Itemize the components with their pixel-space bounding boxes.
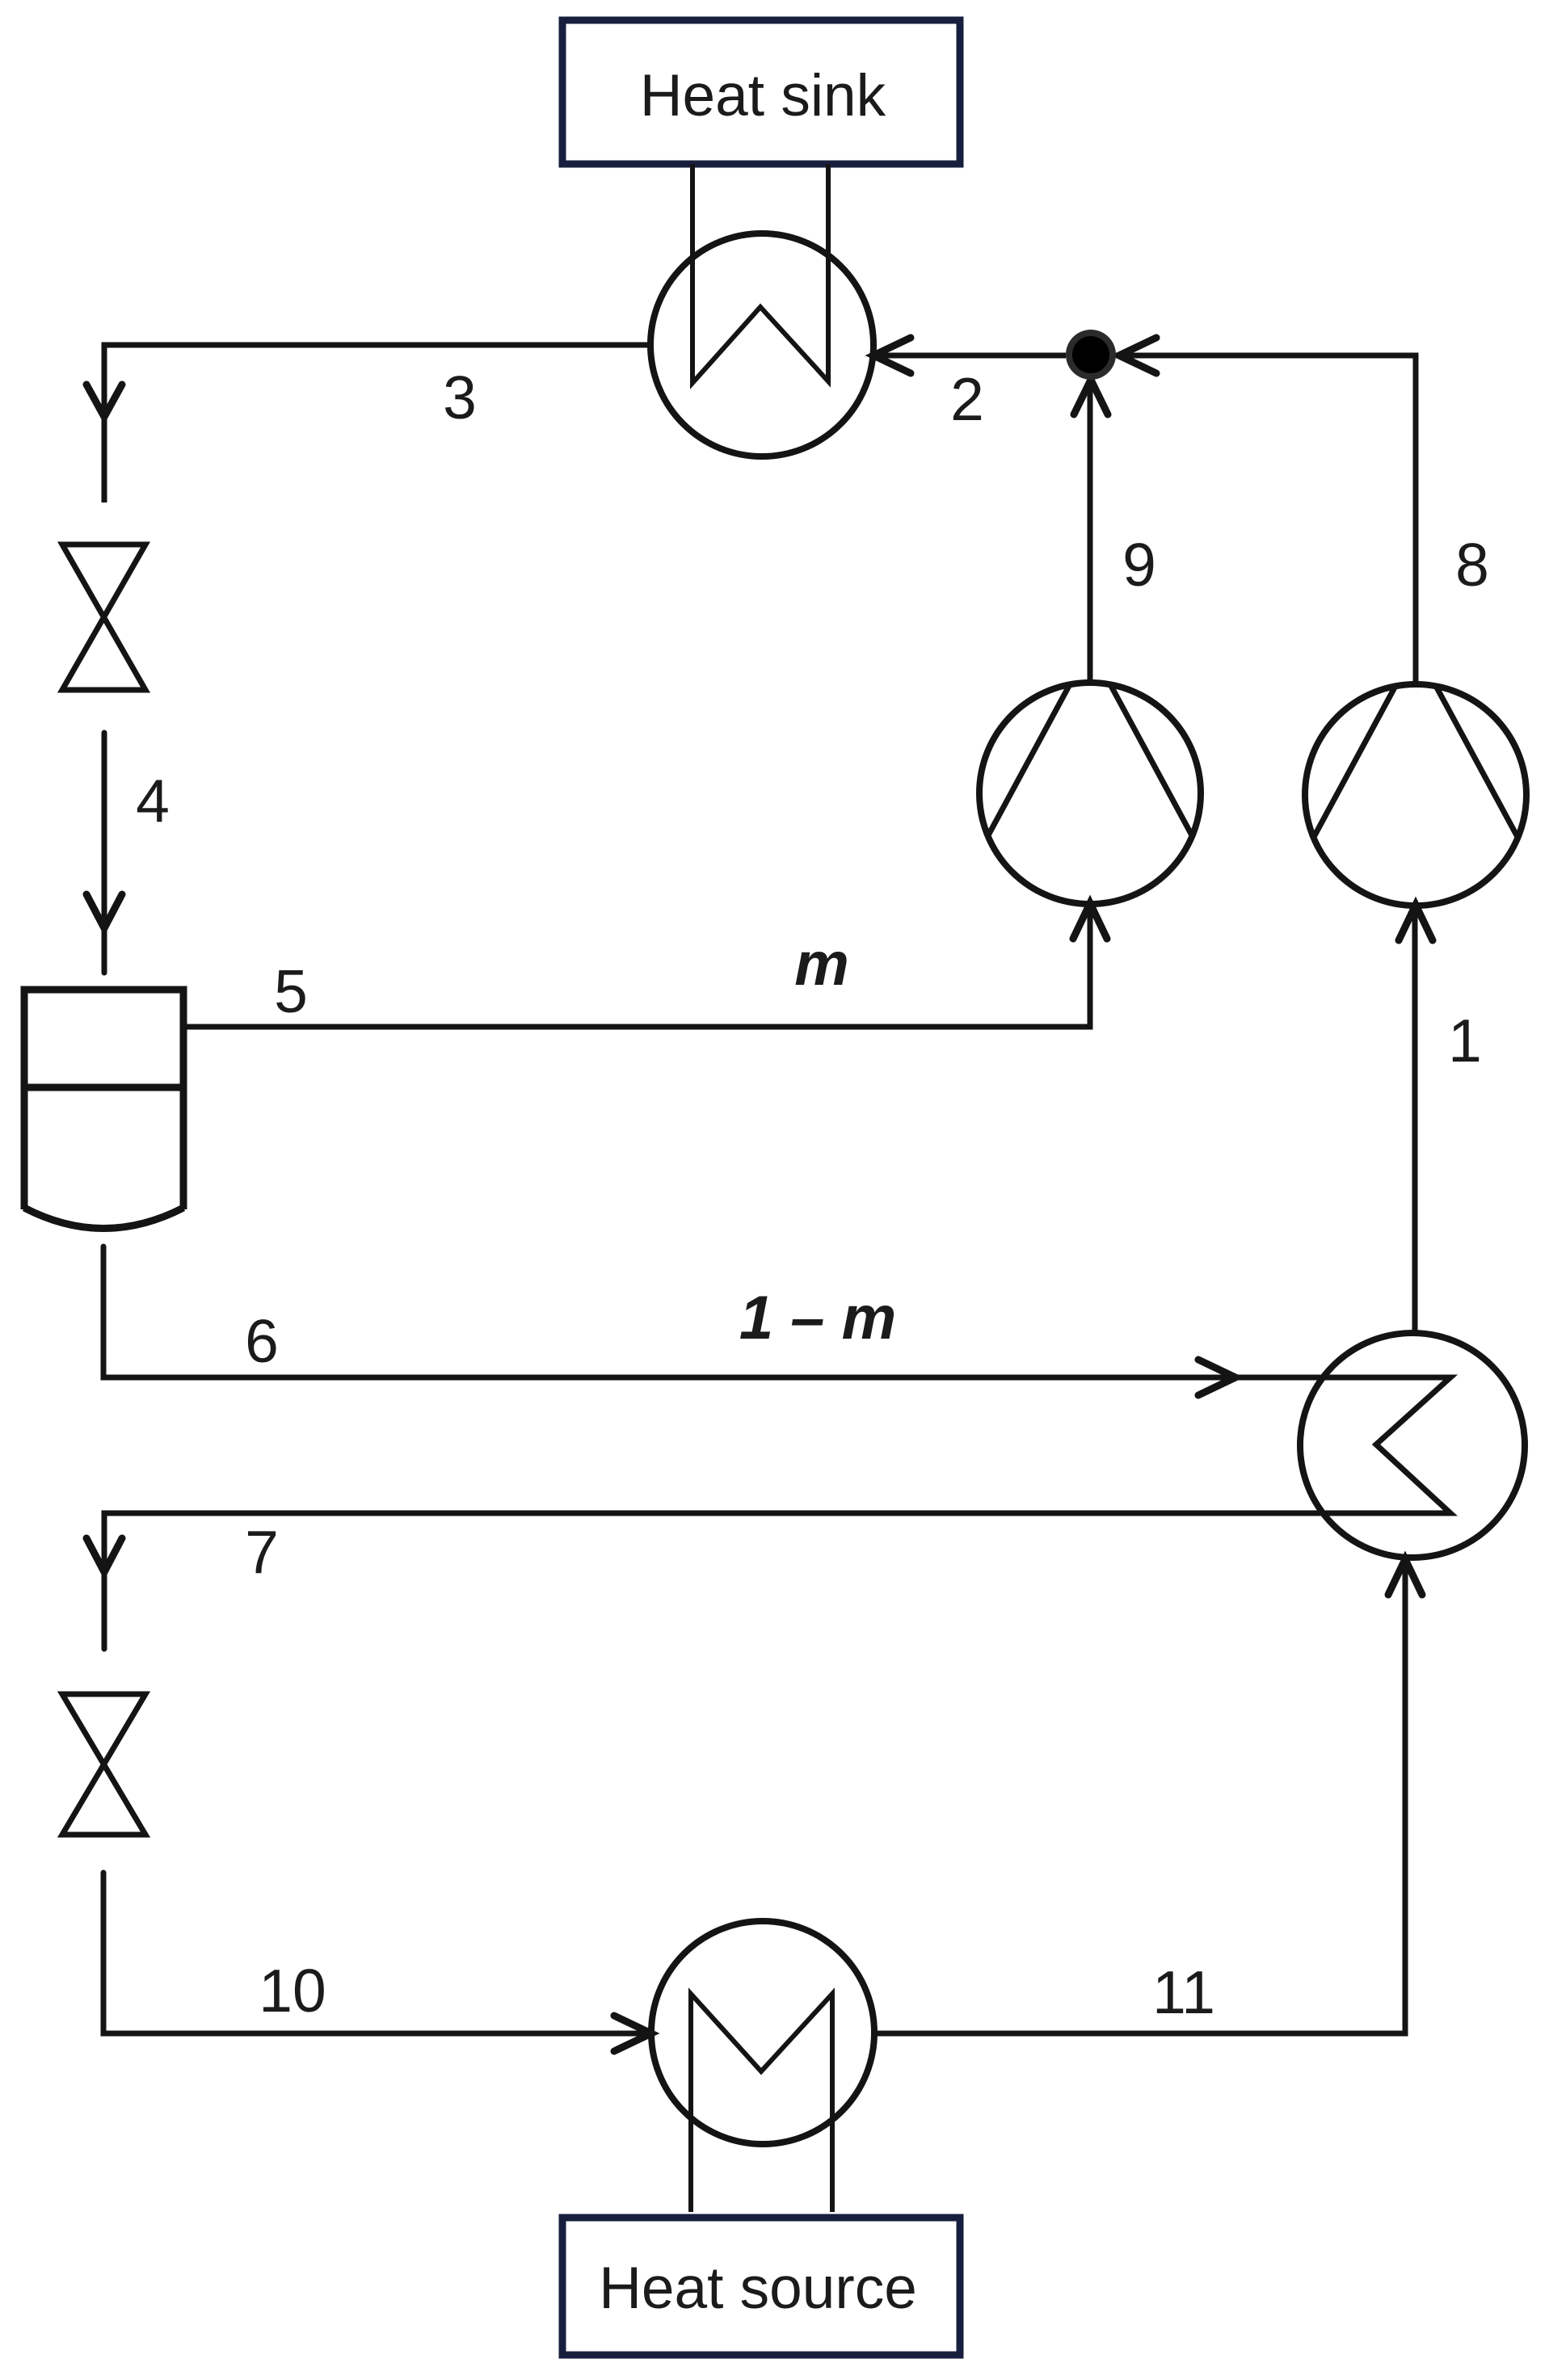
arrow right on wire 6 (1198, 1360, 1235, 1395)
wire 1: economizer to compressor 2 inlet (1412, 906, 1418, 1331)
wire 9: compressor 1 discharge to junction (1088, 380, 1093, 683)
svg-text:3: 3 (443, 364, 477, 431)
wire 6: tank liquid to economizer, continues as chevron and wire 7 (103, 1247, 1450, 1649)
arrow up into economizer (1388, 1559, 1422, 1595)
arrow up into compressor 2 (1399, 905, 1433, 940)
svg-text:10: 10 (259, 1957, 326, 2025)
wire 8: compressor 2 discharge to junction (1116, 355, 1416, 684)
condenser channel lines to heat sink (692, 164, 828, 383)
economizer heat exchanger (1300, 1333, 1525, 1558)
svg-text:11: 11 (1152, 1958, 1215, 2026)
wire 4: valve to flash tank (102, 733, 107, 973)
svg-text:5: 5 (274, 957, 308, 1025)
heat sink box (562, 20, 960, 164)
svg-text:Heat source: Heat source (599, 2256, 917, 2321)
arrow down on wire 3 (86, 385, 122, 417)
junction node (1066, 330, 1116, 380)
compressor 2 (1305, 684, 1526, 906)
wire 3: condenser to valve (104, 345, 650, 502)
evaporator (651, 1921, 874, 2144)
expansion valve V2 (62, 1694, 145, 1835)
svg-text:9: 9 (1122, 531, 1156, 599)
evaporator channel lines to heat source (691, 1994, 832, 2212)
svg-text:6: 6 (245, 1307, 279, 1375)
expansion valve V1 (62, 545, 145, 690)
svg-text:Heat sink: Heat sink (640, 63, 886, 128)
condenser (650, 233, 873, 456)
svg-text:8: 8 (1455, 531, 1489, 599)
wire 10: valve 2 to evaporator (103, 1873, 648, 2033)
wire 2: junction to condenser (877, 353, 1066, 359)
arrow down on wire 4 (86, 894, 122, 928)
compressor 1 (979, 683, 1201, 904)
svg-text:m: m (794, 930, 849, 999)
svg-text:2: 2 (950, 365, 984, 433)
arrow up into junction (1074, 380, 1108, 414)
svg-text:7: 7 (245, 1518, 279, 1586)
wire 5: tank vapor to compressor 1 inlet (187, 905, 1090, 1027)
heat source box (562, 2218, 960, 2355)
arrow up into compressor 1 (1073, 903, 1107, 939)
arrow left into junction (1119, 338, 1156, 373)
svg-text:1: 1 (1448, 1007, 1482, 1074)
svg-text:4: 4 (136, 767, 170, 835)
svg-text:1 – m: 1 – m (739, 1284, 896, 1352)
arrow right into evaporator (614, 2016, 651, 2051)
arrow down on wire 7 (86, 1538, 122, 1572)
flash tank separator (24, 990, 183, 1229)
wire 11: evaporator to economizer (874, 1562, 1405, 2033)
arrow left into condenser (873, 338, 911, 373)
